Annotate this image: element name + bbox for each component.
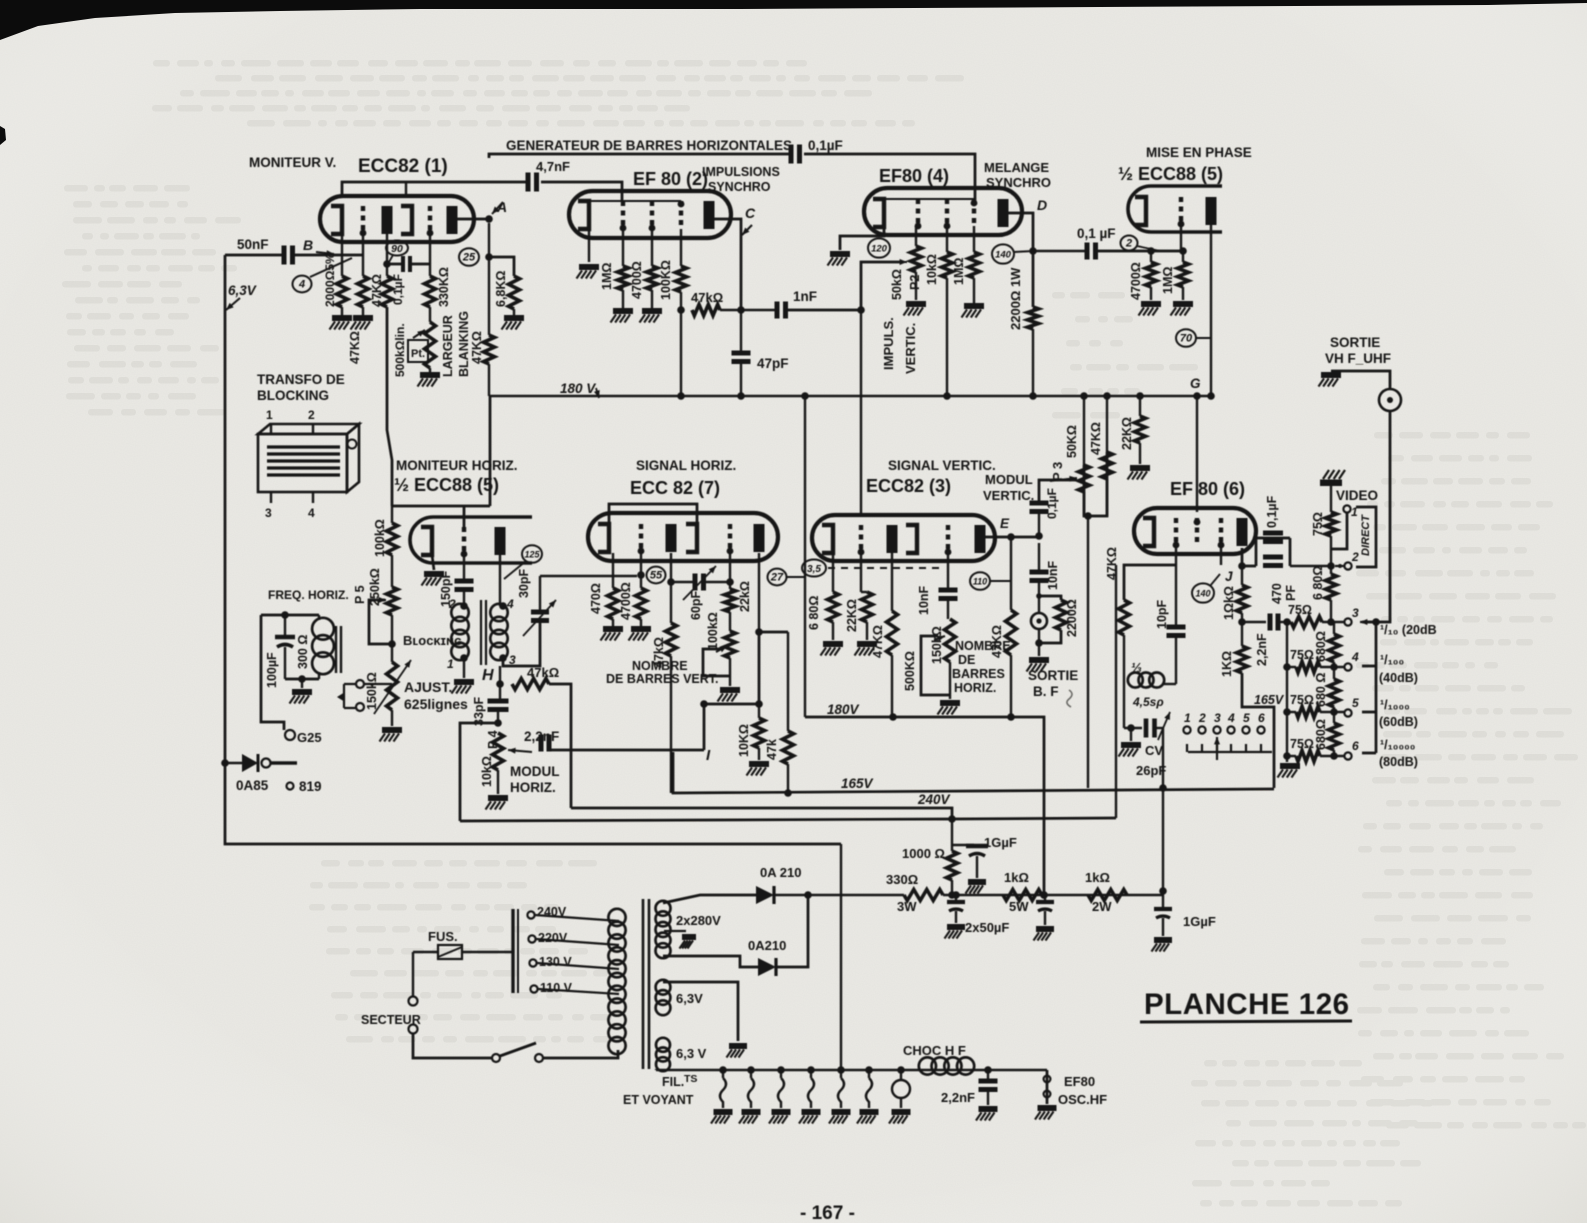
bus 180V y396: [489, 395, 1213, 398]
ground 500k pot: [429, 368, 431, 372]
wire grid1 t7 down: [640, 553, 642, 588]
svg-text:MISE EN PHASE: MISE EN PHASE: [1146, 145, 1252, 160]
tube ECC82 (3): [812, 515, 995, 561]
svg-text:2200Ω: 2200Ω: [1065, 599, 1079, 637]
cathode bracket t5b: [421, 527, 432, 555]
svg-text:MODUL: MODUL: [985, 472, 1033, 487]
svg-text:DE BARRES VERT.: DE BARRES VERT.: [606, 672, 719, 686]
svg-text:75Ω: 75Ω: [1290, 737, 1314, 751]
wire 27 vertical: [804, 396, 806, 717]
svg-text:P 5: P 5: [353, 585, 367, 604]
filament rail: [656, 1069, 1047, 1071]
cathode bracket t3b: [906, 525, 917, 553]
svg-text:FUS.: FUS.: [428, 929, 458, 944]
resistor 2200ohm sortie: [1039, 596, 1061, 600]
svg-text:(40dB): (40dB): [1379, 671, 1418, 685]
svg-text:180 V: 180 V: [560, 381, 596, 396]
wire 2,2nF to I: [548, 704, 760, 750]
ground 6,8k: [513, 309, 515, 315]
svg-text:E: E: [1000, 516, 1010, 531]
capacitor 0,1uF modul vertic: [1030, 501, 1049, 506]
svg-text:OSC.HF: OSC.HF: [1058, 1092, 1107, 1107]
grid t7a: [639, 524, 643, 552]
pin 3: [270, 492, 272, 503]
svg-text:IMPULSIONS: IMPULSIONS: [702, 165, 780, 179]
ground 22kohm bus: [1139, 443, 1141, 464]
wire 47k t7b to 165V: [787, 764, 789, 793]
box Pt.: [408, 340, 428, 362]
svg-text:¹/₁₀ (20dB: ¹/₁₀ (20dB: [1380, 623, 1437, 637]
svg-text:B: B: [303, 237, 313, 253]
svg-text:2,2nF: 2,2nF: [524, 729, 559, 744]
terminal tap 4: [1344, 663, 1351, 670]
anode t3b: [975, 525, 986, 553]
svg-text:MONITEUR HORIZ.: MONITEUR HORIZ.: [396, 458, 518, 473]
resistor 1000ohm: [947, 851, 958, 880]
terminal video 1: [1343, 505, 1350, 512]
potentiometer 50kohm P2: [915, 226, 917, 246]
capacitor 0,1uF anode-grid: [401, 256, 405, 272]
svg-text:SORTIE: SORTIE: [1330, 335, 1380, 350]
wire rail to tap2: [1330, 536, 1332, 566]
wire E down 47k: [1010, 537, 1012, 610]
wire 47k to 240V rail: [549, 684, 571, 808]
svg-text:125: 125: [524, 550, 540, 560]
svg-text:D: D: [1037, 197, 1047, 213]
wire grid2 chain down: [429, 236, 431, 276]
wire P3 junction down to 165V: [1087, 516, 1089, 788]
tap 240V: [527, 911, 534, 918]
resistor 47kohm blanking: [484, 335, 495, 364]
wire coil left down to CV: [1123, 684, 1125, 728]
jack SORTIE BF: [1036, 593, 1042, 599]
svg-text:B. F: B. F: [1033, 684, 1059, 699]
wire cathode t3a down: [832, 553, 834, 592]
node J: [1220, 547, 1222, 565]
tube ECC82 (7): [588, 513, 778, 561]
capacitor 10pF: [1167, 625, 1186, 630]
label P4 wire: [497, 708, 499, 723]
svg-text:0A 210: 0A 210: [760, 865, 801, 880]
attenuation bracket: [1362, 622, 1376, 753]
grid2 t4: [945, 199, 949, 227]
svg-text:110: 110: [973, 577, 987, 587]
svg-text:LARGEUR: LARGEUR: [441, 315, 455, 377]
selector arrow: [1216, 737, 1218, 760]
svg-text:22KΩ: 22KΩ: [845, 599, 859, 632]
svg-text:VH F_UHF: VH F_UHF: [1325, 351, 1391, 366]
circled 55: [647, 567, 666, 584]
node 3 blocking: [499, 654, 507, 662]
ground 150k t3: [949, 662, 951, 699]
svg-text:4,5sρ: 4,5sρ: [1132, 695, 1164, 709]
ground 22k t3: [866, 622, 868, 640]
wire fuse left down: [412, 952, 414, 996]
primary selector bar: [511, 909, 514, 993]
wire 2200 to bus: [1032, 329, 1034, 396]
ground 100k t7: [729, 658, 731, 686]
svg-text:75Ω: 75Ω: [1311, 512, 1325, 536]
grid1 t4: [916, 199, 920, 227]
capacitor 1GuF no1: [952, 844, 974, 846]
wire node B: [291, 254, 362, 257]
svg-text:55: 55: [650, 570, 663, 582]
ground ladder: [1280, 763, 1300, 769]
scan edge black band: [0, 0, 1587, 40]
wire grid1 down: [362, 236, 364, 276]
svg-text:22KΩ: 22KΩ: [1120, 417, 1134, 450]
wire anode2 to 47k/10k: [759, 632, 788, 704]
grid2 t2: [650, 201, 654, 229]
ground 10k t7: [758, 748, 760, 760]
capacitor 2x50uF no1: [955, 895, 957, 901]
svg-text:680 Ω: 680 Ω: [1314, 673, 1328, 707]
wire diode1 to node: [774, 894, 904, 896]
pot loop t3: [921, 636, 950, 695]
svg-text:ET VOYANT: ET VOYANT: [623, 1093, 694, 1107]
svg-text:BLOCKING: BLOCKING: [257, 388, 329, 403]
svg-text:2x280V: 2x280V: [676, 913, 721, 928]
svg-text:CV: CV: [1145, 743, 1163, 758]
wire cathode t2 to ground: [588, 229, 590, 262]
wire A chain to 180V bus: [488, 364, 490, 396]
svg-text:50KΩ: 50KΩ: [1065, 425, 1079, 458]
wire 1nF junction down to ECC82(3) grid: [860, 310, 862, 515]
svg-text:1000 Ω: 1000 Ω: [902, 846, 945, 861]
svg-text:FREQ. HORIZ.: FREQ. HORIZ.: [268, 588, 349, 602]
svg-text:10kΩ: 10kΩ: [480, 756, 494, 787]
grid t3b: [946, 525, 950, 553]
anode t1a: [382, 206, 393, 234]
resistor 470ohm t7: [608, 588, 619, 619]
svg-text:220V: 220V: [538, 931, 568, 945]
capacitor 150pF: [463, 556, 465, 580]
wire top-left rail to filament: [840, 844, 842, 1070]
tap 110V: [530, 985, 537, 992]
ground 2000ohm: [341, 307, 343, 315]
wire g2 t2 down: [651, 229, 653, 266]
svg-text:6: 6: [1352, 739, 1359, 753]
svg-text:165V: 165V: [1254, 693, 1285, 707]
wire grid t5t down: [1180, 226, 1182, 251]
svg-text:¹/₁₀₀₀: ¹/₁₀₀₀: [1380, 698, 1410, 712]
svg-text:1MΩ: 1MΩ: [1161, 267, 1175, 294]
wire 1nF to P2: [784, 262, 901, 310]
svg-text:4,7nF: 4,7nF: [536, 159, 570, 174]
svg-text:Bʟᴏᴄᴋɪɴɢ: Bʟᴏᴄᴋɪɴɢ: [403, 633, 462, 648]
wire g3 t4 down: [973, 226, 975, 252]
svg-text:6 80Ω: 6 80Ω: [807, 596, 821, 630]
terminal tap 2: [1344, 562, 1351, 569]
resistor 680ohm 3: [1333, 662, 1335, 679]
svg-text:680Ω: 680Ω: [1314, 631, 1328, 662]
wire switch to winding: [543, 1050, 618, 1058]
resistor 47kohm t7 anode1: [666, 623, 677, 656]
secondary 6,3V no1: [656, 980, 671, 995]
resistor 75ohm tap3: [1277, 621, 1291, 623]
resistor 75ohm tap6: [1296, 751, 1320, 762]
svg-text:2: 2: [1198, 711, 1206, 725]
resistor 4700ohm t2: [647, 266, 658, 290]
wire 100k to bus: [680, 292, 682, 396]
wire cathodes down t7: [612, 553, 614, 588]
resistor 100kohm t2: [676, 266, 687, 292]
anode t5t: [1206, 197, 1217, 225]
capacitor 2x50uF no2: [1044, 895, 1046, 901]
svg-text:EF80: EF80: [1064, 1074, 1095, 1089]
svg-text:10pF: 10pF: [1155, 599, 1169, 629]
capacitor 100uF: [284, 615, 286, 636]
ground CV: [1127, 724, 1135, 732]
svg-text:HORIZ.: HORIZ.: [510, 780, 556, 795]
svg-text:VERTIC.: VERTIC.: [983, 488, 1034, 503]
ground P4: [497, 770, 499, 794]
svg-text:140: 140: [1195, 589, 1210, 599]
wire CV right down to 165V: [1162, 728, 1164, 788]
wire to 180V bus: [1010, 655, 1012, 717]
grid1 t2: [621, 201, 625, 229]
svg-text:2200Ω 1W: 2200Ω 1W: [1008, 267, 1023, 330]
svg-text:1: 1: [1184, 711, 1191, 725]
grid t5t: [1179, 197, 1183, 225]
terminal secteur 1: [409, 997, 418, 1006]
node 4 blocking: [499, 602, 507, 610]
resistor 6,8kohm: [509, 276, 520, 309]
capacitor 60pF variable: [671, 581, 695, 583]
diode 0A210 no1: [756, 886, 774, 904]
svg-text:50kΩ: 50kΩ: [890, 269, 904, 300]
wire anode t5t down to G: [1210, 225, 1212, 396]
tube EF80 (2): [569, 191, 731, 238]
jack 625: [344, 684, 356, 708]
resistor 10kohm t6: [1237, 585, 1248, 613]
capacitor 1GuF no2: [1154, 907, 1172, 911]
wire secondary top to diode: [663, 895, 756, 903]
wire 240V to power node: [951, 819, 953, 845]
ground 4700 t2: [651, 290, 653, 308]
blocking transformer primary coil: [451, 604, 468, 621]
wire 165V junction down right: [1162, 788, 1164, 908]
resistor 100kohm pot t7: [729, 612, 731, 631]
wire top bus y154 from node A to EF80(4): [489, 154, 975, 200]
svg-text:22kΩ: 22kΩ: [738, 581, 752, 612]
resistor 330kohm: [425, 276, 436, 307]
resistor 22kohm t7: [725, 589, 736, 612]
svg-text:47pF: 47pF: [757, 356, 789, 371]
wire anode t3a down: [891, 553, 893, 611]
svg-text:0,1µF: 0,1µF: [1265, 495, 1279, 528]
svg-text:100KΩ: 100KΩ: [659, 260, 673, 300]
ground 150k: [391, 710, 393, 726]
ground 1M t5t: [1182, 287, 1184, 300]
resistor 2000ohm 5%: [337, 276, 348, 307]
svg-text:240V: 240V: [917, 792, 951, 807]
svg-text:680Ω: 680Ω: [1314, 719, 1328, 750]
resistor 1Mohm t2: [618, 266, 629, 290]
pin 1: [270, 423, 272, 434]
svg-text:Pt.: Pt.: [411, 348, 425, 360]
svg-text:ECC 82 (7): ECC 82 (7): [630, 478, 720, 498]
svg-text:PLANCHE 126: PLANCHE 126: [1144, 988, 1350, 1021]
cathode bracket t5t: [1135, 197, 1146, 225]
tap 220V: [528, 935, 535, 942]
wire cap to E: [1038, 510, 1040, 534]
svg-text:100µF: 100µF: [265, 652, 279, 688]
coil 300ohm: [318, 615, 320, 620]
svg-text:47KΩ: 47KΩ: [1089, 422, 1103, 455]
wire anode1 down: [386, 234, 388, 276]
wire anode1 chain to lower stage: [387, 307, 392, 506]
svg-text:47kΩ: 47kΩ: [527, 665, 559, 680]
svg-text:130 V: 130 V: [539, 955, 572, 969]
svg-text:H: H: [482, 667, 494, 684]
svg-text:3: 3: [1214, 711, 1221, 725]
svg-text:4: 4: [308, 506, 315, 520]
filament drops with grounds: [720, 1070, 726, 1108]
circled 70: [1176, 329, 1196, 347]
svg-text:0A85: 0A85: [236, 778, 269, 793]
diode 0A210 no2: [758, 958, 776, 976]
svg-text:110 V: 110 V: [540, 981, 573, 995]
svg-text:(80dB): (80dB): [1379, 755, 1418, 769]
resistor 4700ohm t7: [636, 588, 647, 619]
wire VHF to attenuator tap3: [1362, 411, 1390, 622]
svg-text:0A210: 0A210: [748, 938, 786, 953]
svg-text:47KΩ: 47KΩ: [470, 331, 484, 364]
svg-text:60pF: 60pF: [689, 590, 703, 620]
anode t2: [704, 201, 715, 229]
wire 1k to 165V step: [1242, 673, 1274, 788]
wire A chain down: [488, 223, 490, 335]
wire 47k box to 240V rail: [1115, 565, 1117, 818]
cathode tie loop t7: [609, 504, 697, 524]
grid t5b: [462, 527, 466, 555]
grid t1b: [428, 206, 432, 234]
resistor 1kohm 2W: [1088, 890, 1127, 901]
svg-text:0,1µF: 0,1µF: [808, 138, 843, 153]
wire anode1 t7 down: [670, 553, 672, 623]
wire secondary bottom to diode2: [663, 956, 758, 967]
pin 4: [312, 492, 314, 503]
svg-text:MELANGE: MELANGE: [984, 160, 1049, 175]
anode node t6: [1238, 562, 1246, 570]
svg-text:1kΩ: 1kΩ: [1085, 870, 1110, 885]
cathode bracket t1a: [331, 206, 342, 234]
wire 0,1uF to ECC88 grid: [1094, 250, 1183, 253]
terminal tap 6: [1344, 752, 1351, 759]
freq horiz loop bottom: [285, 678, 319, 681]
svg-text:470: 470: [1270, 583, 1284, 604]
svg-text:90: 90: [391, 243, 403, 255]
secondary 6,3V no2: [656, 1038, 670, 1052]
svg-text:5: 5: [1243, 711, 1250, 725]
bus 165V: [673, 752, 1274, 793]
svg-text:1GµF: 1GµF: [1183, 914, 1216, 929]
svg-text:4700Ω: 4700Ω: [630, 261, 644, 299]
potentiometer P5 250kohm: [391, 555, 393, 587]
svg-text:BLANKING: BLANKING: [457, 311, 471, 377]
resistor 75ohm top: [1326, 512, 1337, 536]
svg-text:4: 4: [298, 279, 305, 291]
svg-text:SIGNAL HORIZ.: SIGNAL HORIZ.: [636, 458, 736, 473]
svg-text:30pF: 30pF: [517, 568, 531, 598]
wire 6,3V1 to ground: [663, 982, 738, 1041]
terminal tap 5: [1344, 709, 1351, 716]
potentiometer 50kohm P3: [1083, 396, 1085, 465]
resistor 1kohm t6: [1237, 646, 1248, 673]
svg-text:1GµF: 1GµF: [984, 835, 1017, 850]
anode t3a: [887, 525, 898, 553]
svg-text:150kΩ: 150kΩ: [365, 672, 379, 710]
wire 47k t3a to bus: [891, 655, 893, 717]
fuse: [413, 951, 438, 953]
svg-text:4700Ω: 4700Ω: [1129, 262, 1143, 300]
resistor 10kohm t7: [754, 718, 765, 748]
svg-text:10KΩ: 10KΩ: [737, 724, 751, 757]
resistor 680ohm t3: [828, 592, 839, 622]
svg-text:47kΩ: 47kΩ: [691, 290, 723, 305]
resistor 47kohm t3b: [1006, 610, 1017, 655]
cathode bracket t3a: [822, 525, 833, 553]
cathode bracket t7b: [686, 524, 697, 552]
resistor 680ohm 2: [1329, 634, 1340, 662]
svg-text:½ ECC88 (5): ½ ECC88 (5): [1118, 164, 1223, 184]
heater dashed line t3: [828, 567, 940, 569]
svg-text:P 4: P 4: [486, 730, 500, 749]
svg-text:6,3V: 6,3V: [676, 991, 703, 1006]
terminals 1-6 circles: [1183, 726, 1190, 733]
svg-text:P 3: P 3: [1050, 462, 1065, 481]
wire 10pF to coil right: [1175, 634, 1177, 684]
grid t1a: [361, 206, 365, 234]
capacitor 10nF t3: [939, 588, 958, 593]
bus 240V: [571, 808, 952, 819]
svg-text:2: 2: [1351, 550, 1359, 564]
svg-text:47KΩ: 47KΩ: [370, 274, 384, 307]
wire anode2 t7 down: [758, 553, 760, 632]
svg-text:27: 27: [770, 572, 784, 584]
anode t6: [1237, 518, 1248, 546]
svg-text:GENERATEUR DE BARRES HORIZO: GENERATEUR DE BARRES HORIZONTALES: [506, 138, 792, 153]
svg-text:470Ω: 470Ω: [589, 583, 603, 614]
wire cathode t4 to ground: [840, 227, 884, 250]
svg-text:G: G: [1190, 376, 1201, 391]
svg-text:6,8KΩ: 6,8KΩ: [494, 271, 508, 307]
svg-text:SORTIE: SORTIE: [1028, 668, 1078, 683]
svg-text:500KΩ: 500KΩ: [903, 651, 917, 691]
svg-text:3W: 3W: [897, 899, 917, 914]
circled 120: [868, 238, 890, 257]
anode t7a: [666, 524, 677, 552]
svg-text:180V: 180V: [827, 702, 860, 717]
svg-text:6 80Ω: 6 80Ω: [1311, 566, 1325, 600]
potentiometer 150kohm ajust: [391, 615, 393, 662]
grid2 t6: [1195, 518, 1199, 546]
svg-text:1MΩ: 1MΩ: [600, 263, 614, 290]
voyant lamp: [900, 1070, 902, 1080]
svg-text:2: 2: [308, 408, 315, 422]
wire g3 t2 down: [680, 229, 682, 266]
svg-text:0,1µF: 0,1µF: [1045, 488, 1059, 519]
svg-text:3: 3: [265, 506, 272, 520]
svg-text:70: 70: [1180, 333, 1193, 345]
selector comb: [1187, 744, 1272, 752]
pin 2: [312, 423, 314, 434]
svg-text:¹/₁₀₀: ¹/₁₀₀: [1380, 653, 1404, 667]
potentiometer 10kohm P4: [493, 733, 504, 770]
anode wire C: [714, 219, 741, 310]
wire grid t3b down: [947, 553, 949, 589]
